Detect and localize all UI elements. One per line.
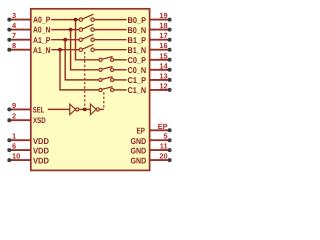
switch SC0_N left contact [99,68,102,71]
svg-text:B0_N: B0_N [128,25,147,35]
switch SB0_N arm [83,24,94,29]
svg-text:GND: GND [131,146,147,156]
pin 1 VDD (left pin wire) [10,139,31,141]
pin 12 C1_N (right pin wire) [149,89,168,91]
wire inverter U1B output to control corner [99,108,103,110]
svg-text:20: 20 [159,152,167,161]
svg-text:15: 15 [159,51,167,60]
pin 14 open-end dot [168,68,172,72]
svg-text:EP: EP [137,125,146,135]
svg-text:A1_P: A1_P [33,35,51,45]
switch SB1_P right contact [91,38,94,41]
pin 9 open-end dot [7,107,11,111]
pin 3 A0_P (left pin wire) [10,19,31,21]
pin 7 A1_P (left pin wire) [10,39,31,41]
switch SC0_P left contact [99,58,102,61]
pin 4 open-end dot [7,28,11,32]
switch SC1_N arm [102,87,113,90]
wire A0_N row to B switch [51,29,79,31]
svg-text:C0_P: C0_P [128,55,147,65]
svg-text:10: 10 [12,152,20,161]
switch SB1_P left contact [79,38,82,41]
pin 20 GND (right pin wire) [149,159,168,161]
wire elbow to C switch row 2 [65,79,99,81]
pin 15 C0_P (right pin wire) [149,59,168,61]
wire C1_P switch to label [114,79,127,81]
pin 2 open-end dot [7,118,11,122]
svg-text:A0_N: A0_N [33,25,50,35]
switch SB0_P right contact [91,18,94,21]
svg-text:SEL: SEL [33,105,44,114]
pin 1 open-end dot [7,138,11,142]
svg-text:7: 7 [12,31,16,40]
svg-text:B0_P: B0_P [128,15,147,25]
switch SB1_N right contact [91,48,94,51]
svg-text:VDD: VDD [33,136,49,146]
wire C0_P switch to label [114,59,127,61]
wire A1_N row to B switch [51,49,79,51]
inverter U1B triangle [90,104,96,115]
pin 10 VDD (left pin wire) [10,159,31,161]
switch SC1_P arm [102,77,113,80]
svg-text:12: 12 [159,81,167,90]
wire elbow to C switch row 1 [70,69,99,71]
pin 13 C1_P (right pin wire) [149,79,168,81]
pin EP EP (right pin wire) [149,129,168,131]
pin 14 C0_N (right pin wire) [149,69,168,71]
dashed control line to B switches [84,52,86,108]
pin 16 B1_N (right pin wire) [149,49,168,51]
pin 11 GND (right pin wire) [149,149,168,151]
pin 18 B0_N (right pin wire) [149,29,168,31]
svg-text:5: 5 [163,132,167,141]
inverter U1A output bubble [76,108,79,111]
switch SC0_N arm [102,67,113,70]
wire C1_N switch to label [114,89,127,91]
pin 6 open-end dot [7,148,11,152]
pin 8 A1_N (left pin wire) [10,49,31,51]
svg-text:A0_P: A0_P [33,15,51,25]
svg-text:VDD: VDD [33,146,49,156]
pin 5 open-end dot [168,138,172,142]
svg-text:C1_N: C1_N [128,85,147,95]
switch SC0_P right contact [111,58,114,61]
wire elbow to C switch row 0 [75,59,99,61]
switch SC1_P right contact [111,78,114,81]
pin 10 open-end dot [7,158,11,162]
IC body outline [31,9,150,171]
svg-text:14: 14 [159,61,168,70]
pin 8 open-end dot [7,48,11,52]
svg-text:XSD: XSD [33,116,46,125]
svg-text:VDD: VDD [33,156,49,166]
switch SB1_P arm [83,34,94,39]
pin EP open-end dot [168,128,172,132]
pin 16 open-end dot [168,48,172,52]
wire A1_P row to B switch [51,39,79,41]
svg-text:B1_N: B1_N [128,45,147,55]
wire vertical drop from A0_P [75,20,77,60]
junction dot on A1_P row [63,38,67,42]
svg-text:C1_P: C1_P [128,75,147,85]
dashed control line to C switches [103,92,105,108]
svg-text:2: 2 [12,112,16,121]
svg-text:17: 17 [159,31,167,40]
wire A0_P row to B switch [51,19,79,21]
switch SB0_P left contact [79,18,82,21]
wire vertical drop from A1_P [64,40,66,80]
switch SB0_N right contact [91,28,94,31]
wire elbow to C switch row 3 [59,89,99,91]
pin 6 VDD (left pin wire) [10,149,31,151]
svg-text:1: 1 [12,132,16,141]
pin 9 SEL (left pin wire) [10,108,31,110]
pin 17 open-end dot [168,38,172,42]
pin 11 open-end dot [168,148,172,152]
pin 2 XSD (left pin wire) [10,119,31,121]
wire B0_N switch to label [94,29,126,31]
svg-text:16: 16 [159,41,167,50]
pin 3 open-end dot [7,18,11,22]
svg-text:11: 11 [160,142,168,151]
svg-text:13: 13 [159,71,167,80]
junction dot on A0_P row [74,18,78,22]
svg-text:C0_N: C0_N [128,65,147,75]
switch SB1_N arm [83,44,94,49]
switch SB0_P arm [83,14,94,19]
svg-text:19: 19 [159,11,167,20]
junction dot on A1_N row [58,48,62,52]
pin 18 open-end dot [168,28,172,32]
inverter U1A triangle [70,104,76,115]
switch SC1_N left contact [99,88,102,91]
svg-text:GND: GND [131,156,147,166]
switch SC0_P arm [102,57,113,60]
svg-text:B1_P: B1_P [128,35,147,45]
svg-text:8: 8 [12,41,16,50]
switch SC1_P left contact [99,78,102,81]
svg-text:6: 6 [12,142,16,151]
wire SEL to inverter U1A [48,108,70,110]
svg-text:3: 3 [12,11,16,20]
wire B0_P switch to label [94,19,126,21]
pin 7 open-end dot [7,38,11,42]
wire vertical drop from A1_N [59,50,61,90]
switch SC1_N right contact [111,88,114,91]
pin 15 open-end dot [168,58,172,62]
pin 4 A0_N (left pin wire) [10,29,31,31]
junction dot node SEL_INV [83,108,87,112]
pin 19 B0_P (right pin wire) [149,19,168,21]
pin 12 open-end dot [168,88,172,92]
svg-text:A1_N: A1_N [33,45,50,55]
switch SB1_N left contact [79,48,82,51]
svg-text:9: 9 [12,101,16,110]
pin 5 GND (right pin wire) [149,139,168,141]
svg-text:EP: EP [158,122,168,131]
switch SB0_N left contact [79,28,82,31]
wire vertical drop from A0_N [70,30,72,70]
wire B1_P switch to label [94,39,126,41]
pin 20 open-end dot [168,158,172,162]
wire C0_N switch to label [114,69,127,71]
inverter U1B output bubble [96,108,99,111]
svg-text:18: 18 [159,21,167,30]
switch SC0_N right contact [111,68,114,71]
pin 19 open-end dot [168,18,172,22]
wire B1_N switch to label [94,49,126,51]
wire inverter U1A output to U1B input [79,108,91,110]
junction dot on A0_N row [69,28,73,32]
svg-text:GND: GND [131,136,147,146]
pin 17 B1_P (right pin wire) [149,39,168,41]
pin 13 open-end dot [168,78,172,82]
